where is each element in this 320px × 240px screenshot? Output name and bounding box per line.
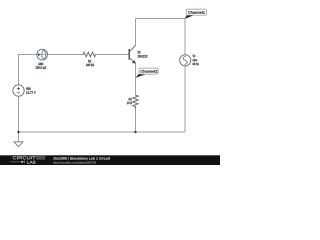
flag text Channel1 — [188, 11, 205, 14]
label 12.77 V — [26, 91, 36, 93]
source VBB — [13, 85, 24, 96]
logo gray block — [36, 156, 46, 160]
flag Channel1 — [185, 9, 207, 19]
wire top-right horizontal — [136, 18, 186, 20]
wire left vertical lower (VBB to ground stem) — [18, 96, 20, 142]
wire ammeter to R1 — [48, 54, 83, 56]
wire R2 to bottom — [135, 109, 137, 133]
logo LAB row — [10, 161, 36, 164]
label sine — [193, 59, 198, 62]
label VBB — [26, 87, 31, 89]
wire bottom horizontal — [19, 131, 186, 133]
resistor R2 — [133, 95, 138, 109]
label 60 Hz — [193, 63, 199, 65]
label R2 — [129, 98, 132, 100]
flag Channel2 — [136, 68, 159, 78]
wire collector vertical up — [135, 19, 137, 46]
junction dot emitter-bottom — [134, 131, 136, 133]
wire emitter vertical down to R2 — [135, 64, 137, 96]
footer bar — [0, 155, 220, 165]
wire right vertical (top corner to V3) — [184, 19, 186, 55]
footer line 2 — [53, 161, 96, 164]
junction dot left-bottom — [17, 131, 19, 133]
label R1 — [88, 60, 91, 62]
ammeter AM1 — [37, 49, 48, 60]
wire left vertical upper (corner down to VBB) — [18, 54, 20, 85]
wire top-left horizontal (left corner to ammeter) — [18, 54, 37, 56]
flag text Channel2 — [141, 70, 158, 73]
ground — [14, 142, 23, 147]
label 2N2222 — [138, 55, 148, 57]
wire R1 to Q1 base — [96, 54, 130, 56]
transistor Q1 2N2222 — [129, 46, 136, 64]
wire right vertical (V3 to bottom) — [184, 66, 186, 132]
source V3 sine — [180, 55, 191, 66]
label V3 — [193, 55, 196, 57]
label 100 kΩ — [86, 64, 94, 67]
logo LAB — [27, 161, 35, 164]
label 120.0 µA — [36, 66, 47, 69]
logo CIRCUIT — [13, 156, 36, 159]
label 10 Ω — [127, 102, 132, 104]
resistor R1 — [83, 52, 96, 57]
label Q1 — [138, 51, 141, 54]
label AM1 — [38, 63, 43, 65]
footer line 1 — [53, 157, 110, 160]
